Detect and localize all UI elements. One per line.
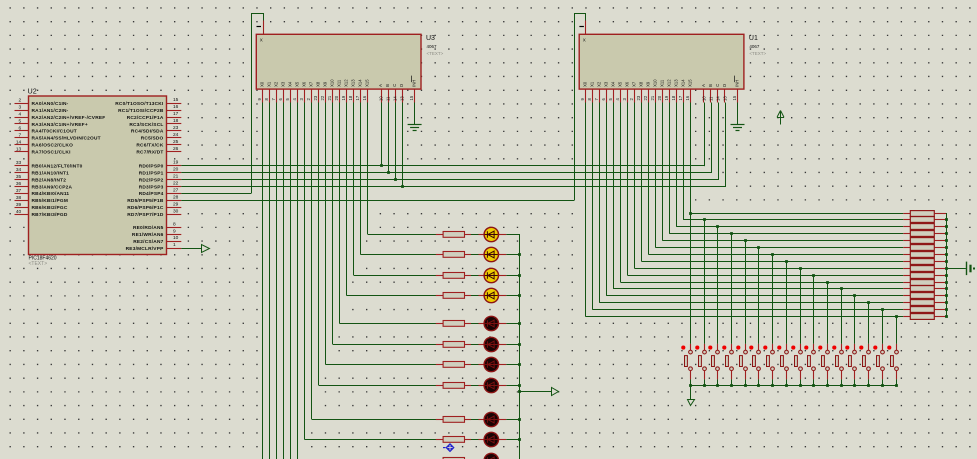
svg-text:29: 29 bbox=[173, 201, 179, 207]
svg-text:23: 23 bbox=[313, 95, 318, 100]
svg-text:X1: X1 bbox=[267, 81, 272, 87]
svg-text:22: 22 bbox=[173, 180, 179, 186]
svg-text:RA3/AN3/C1IN+/VREF+: RA3/AN3/C1IN+/VREF+ bbox=[32, 122, 88, 128]
svg-text:RC6/TX/CK: RC6/TX/CK bbox=[136, 143, 163, 149]
svg-text:23: 23 bbox=[636, 95, 641, 100]
svg-text:10: 10 bbox=[379, 96, 384, 101]
svg-text:X10: X10 bbox=[330, 79, 335, 87]
svg-text:X7: X7 bbox=[632, 81, 637, 87]
svg-text:X11: X11 bbox=[337, 79, 342, 87]
svg-text:RA5/AN4/SS/HLVDIN/C2OUT: RA5/AN4/SS/HLVDIN/C2OUT bbox=[32, 136, 101, 142]
svg-text:27: 27 bbox=[173, 187, 179, 193]
svg-text:23: 23 bbox=[173, 125, 179, 131]
svg-text:18: 18 bbox=[348, 95, 353, 100]
svg-text:X8: X8 bbox=[316, 81, 321, 87]
svg-text:7: 7 bbox=[19, 132, 22, 138]
svg-text:X0: X0 bbox=[260, 81, 265, 87]
svg-text:RA1/AN1/C2IN-: RA1/AN1/C2IN- bbox=[32, 108, 69, 114]
svg-text:17: 17 bbox=[678, 95, 683, 100]
svg-text:5: 5 bbox=[19, 118, 22, 124]
svg-text:X: X bbox=[583, 38, 586, 43]
svg-text:X4: X4 bbox=[611, 81, 616, 87]
svg-text:RD7/PSP7/P1D: RD7/PSP7/P1D bbox=[127, 212, 164, 218]
svg-text:1: 1 bbox=[173, 242, 176, 248]
svg-text:4067: 4067 bbox=[427, 44, 438, 49]
svg-text:2: 2 bbox=[19, 98, 22, 104]
svg-text:U3: U3 bbox=[426, 35, 435, 42]
svg-text:21: 21 bbox=[650, 95, 655, 100]
svg-text:21: 21 bbox=[173, 174, 179, 180]
svg-text:RE3/MCLR/VPP: RE3/MCLR/VPP bbox=[126, 246, 164, 252]
svg-text:RC1/T1OSI/CCP2B: RC1/T1OSI/CCP2B bbox=[118, 108, 164, 114]
svg-text:X3: X3 bbox=[604, 81, 609, 87]
svg-text:A: A bbox=[701, 84, 706, 87]
svg-text:D: D bbox=[722, 84, 727, 87]
svg-text:36: 36 bbox=[16, 181, 22, 187]
svg-text:37: 37 bbox=[16, 188, 22, 194]
svg-text:RD0/PSP0: RD0/PSP0 bbox=[139, 163, 164, 169]
svg-text:RB1/AN10/INT1: RB1/AN10/INT1 bbox=[32, 170, 70, 176]
svg-text:18: 18 bbox=[173, 118, 179, 124]
svg-text:RB6/KBI2/PGC: RB6/KBI2/PGC bbox=[32, 205, 68, 211]
svg-text:X1: X1 bbox=[590, 81, 595, 87]
svg-text:10: 10 bbox=[702, 96, 707, 101]
svg-text:15: 15 bbox=[173, 97, 179, 103]
svg-text:RD6/PSP6/P1C: RD6/PSP6/P1C bbox=[127, 205, 164, 211]
svg-text:14: 14 bbox=[716, 96, 721, 101]
svg-text:RB4/KBI0/AN11: RB4/KBI0/AN11 bbox=[32, 191, 70, 197]
svg-text:19: 19 bbox=[341, 95, 346, 100]
svg-text:X12: X12 bbox=[667, 79, 672, 87]
svg-text:RB5/KBI1/PGM: RB5/KBI1/PGM bbox=[32, 198, 69, 204]
svg-text:20: 20 bbox=[334, 95, 339, 100]
svg-text:13: 13 bbox=[723, 96, 728, 101]
svg-text:17: 17 bbox=[173, 111, 179, 117]
svg-text:20: 20 bbox=[173, 167, 179, 173]
svg-text:38: 38 bbox=[16, 195, 22, 201]
svg-text:X13: X13 bbox=[674, 79, 679, 87]
svg-text:30: 30 bbox=[173, 208, 179, 214]
svg-text:X8: X8 bbox=[639, 81, 644, 87]
svg-text:X9: X9 bbox=[646, 81, 651, 87]
svg-text:RB3/AN9/CCP2A: RB3/AN9/CCP2A bbox=[32, 184, 73, 190]
svg-text:X14: X14 bbox=[681, 79, 686, 87]
svg-text:<TEXT>: <TEXT> bbox=[29, 261, 48, 267]
svg-text:25: 25 bbox=[173, 139, 179, 145]
svg-text:X: X bbox=[260, 38, 263, 43]
svg-text:RA6/OSC2/CLKO: RA6/OSC2/CLKO bbox=[32, 143, 74, 149]
svg-text:40: 40 bbox=[16, 209, 22, 215]
svg-text:RA4/T0CKI/C1OUT: RA4/T0CKI/C1OUT bbox=[32, 129, 77, 135]
svg-text:RC7/RX/DT: RC7/RX/DT bbox=[136, 150, 163, 156]
svg-text:B: B bbox=[708, 84, 713, 87]
svg-text:C: C bbox=[715, 84, 720, 87]
svg-text:D: D bbox=[399, 84, 404, 87]
svg-text:X0: X0 bbox=[583, 81, 588, 87]
svg-text:26: 26 bbox=[173, 146, 179, 152]
svg-text:<TEXT>: <TEXT> bbox=[749, 51, 766, 56]
svg-text:18: 18 bbox=[671, 95, 676, 100]
svg-text:RC3/SCK/SCL: RC3/SCK/SCL bbox=[129, 122, 163, 128]
svg-text:INH: INH bbox=[412, 80, 417, 87]
svg-text:19: 19 bbox=[173, 160, 179, 166]
svg-text:X9: X9 bbox=[323, 81, 328, 87]
svg-text:RD3/PSP3: RD3/PSP3 bbox=[139, 184, 164, 190]
svg-text:22: 22 bbox=[320, 95, 325, 100]
svg-text:13: 13 bbox=[16, 146, 22, 152]
svg-text:16: 16 bbox=[685, 95, 690, 100]
svg-text:C: C bbox=[392, 84, 397, 87]
svg-text:13: 13 bbox=[400, 96, 405, 101]
svg-text:RA2/AN2/C2IN+/VREF-/CVREF: RA2/AN2/C2IN+/VREF-/CVREF bbox=[32, 115, 106, 121]
svg-text:20: 20 bbox=[657, 95, 662, 100]
svg-text:X3: X3 bbox=[281, 81, 286, 87]
svg-text:RD4/PSP4: RD4/PSP4 bbox=[139, 191, 164, 197]
svg-text:21: 21 bbox=[327, 95, 332, 100]
svg-text:33: 33 bbox=[16, 160, 22, 166]
svg-text:19: 19 bbox=[664, 95, 669, 100]
svg-text:14: 14 bbox=[393, 96, 398, 101]
svg-text:RC5/SDO: RC5/SDO bbox=[141, 136, 164, 142]
svg-text:X14: X14 bbox=[358, 79, 363, 87]
svg-text:RB0/AN12/FLT0/INT0: RB0/AN12/FLT0/INT0 bbox=[32, 163, 83, 169]
svg-text:RE0/RD/AN5: RE0/RD/AN5 bbox=[133, 225, 164, 231]
svg-text:15: 15 bbox=[732, 95, 737, 100]
svg-text:X4: X4 bbox=[288, 81, 293, 87]
svg-text:X2: X2 bbox=[274, 81, 279, 87]
svg-text:X13: X13 bbox=[351, 79, 356, 87]
svg-text:24: 24 bbox=[173, 132, 179, 138]
svg-text:35: 35 bbox=[16, 174, 22, 180]
svg-text:U1: U1 bbox=[749, 35, 758, 42]
svg-text:X12: X12 bbox=[344, 79, 349, 87]
svg-text:11: 11 bbox=[386, 96, 391, 101]
svg-text:<TEXT>: <TEXT> bbox=[427, 51, 444, 56]
svg-text:INH: INH bbox=[735, 80, 740, 87]
svg-text:28: 28 bbox=[173, 194, 179, 200]
svg-text:X5: X5 bbox=[295, 81, 300, 87]
svg-text:16: 16 bbox=[173, 104, 179, 110]
svg-text:RC4/SDI/SDA: RC4/SDI/SDA bbox=[131, 129, 164, 135]
svg-text:3: 3 bbox=[19, 105, 22, 111]
svg-text:39: 39 bbox=[16, 202, 22, 208]
svg-text:RE1/WR/AN6: RE1/WR/AN6 bbox=[132, 232, 164, 238]
svg-text:X15: X15 bbox=[365, 79, 370, 87]
svg-text:RC0/T1OSO/T13CKI: RC0/T1OSO/T13CKI bbox=[115, 101, 164, 107]
svg-text:RA0/AN0/C1IN-: RA0/AN0/C1IN- bbox=[32, 101, 69, 107]
svg-text:X6: X6 bbox=[302, 81, 307, 87]
svg-text:X5: X5 bbox=[618, 81, 623, 87]
svg-text:RD1/PSP1: RD1/PSP1 bbox=[139, 170, 164, 176]
svg-text:RB2/AN8/INT2: RB2/AN8/INT2 bbox=[32, 177, 67, 183]
svg-text:16: 16 bbox=[362, 95, 367, 100]
svg-text:22: 22 bbox=[643, 95, 648, 100]
svg-text:RC2/CCP1/P1A: RC2/CCP1/P1A bbox=[127, 115, 164, 121]
svg-text:8: 8 bbox=[173, 221, 176, 227]
svg-text:11: 11 bbox=[709, 96, 714, 101]
svg-text:RD2/PSP2: RD2/PSP2 bbox=[139, 177, 164, 183]
svg-text:15: 15 bbox=[409, 95, 414, 100]
svg-text:X2: X2 bbox=[597, 81, 602, 87]
svg-text:17: 17 bbox=[355, 95, 360, 100]
svg-text:U2: U2 bbox=[28, 87, 37, 96]
svg-text:A: A bbox=[378, 84, 383, 87]
svg-text:X11: X11 bbox=[660, 79, 665, 87]
svg-text:14: 14 bbox=[16, 139, 22, 145]
svg-text:X15: X15 bbox=[688, 79, 693, 87]
svg-text:RD5/PSP5/P1B: RD5/PSP5/P1B bbox=[127, 198, 164, 204]
svg-text:X10: X10 bbox=[653, 79, 658, 87]
svg-text:X7: X7 bbox=[309, 81, 314, 87]
svg-text:RE2/CS/AN7: RE2/CS/AN7 bbox=[133, 239, 163, 245]
svg-text:4067: 4067 bbox=[749, 44, 760, 49]
svg-text:RB7/KBI3/PGD: RB7/KBI3/PGD bbox=[32, 212, 68, 218]
svg-text:4: 4 bbox=[19, 112, 22, 118]
svg-text:9: 9 bbox=[173, 228, 176, 234]
svg-text:X6: X6 bbox=[625, 81, 630, 87]
svg-text:34: 34 bbox=[16, 167, 22, 173]
svg-text:6: 6 bbox=[19, 125, 22, 131]
svg-text:10: 10 bbox=[173, 235, 179, 241]
svg-text:B: B bbox=[385, 84, 390, 87]
svg-text:RA7/OSC1/CLKI: RA7/OSC1/CLKI bbox=[32, 150, 72, 156]
